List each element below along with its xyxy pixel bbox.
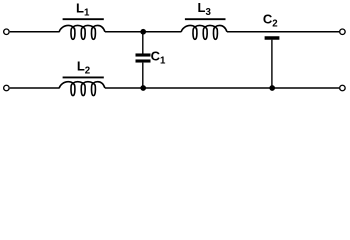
wire: bottom rail, L2 to output terminal through nodes B and C: [105, 87, 339, 89]
svg-text:L2: L2: [77, 59, 90, 77]
svg-text:L1: L1: [76, 0, 90, 18]
inductor L2 bar: [63, 76, 104, 78]
inductor L1 coil: [59, 25, 105, 39]
wire: bottom rail, input terminal to L2: [10, 87, 60, 89]
wire: top rail, input terminal to L1: [10, 31, 60, 33]
capacitor C1 bottom lead: [142, 63, 144, 88]
node B: junction dot at bottom of C1: [140, 85, 146, 91]
svg-text:L3: L3: [198, 0, 212, 18]
terminal: output top-right: [340, 29, 346, 35]
capacitor C1 bottom plate: [136, 59, 151, 62]
capacitor C1 top plate: [136, 53, 151, 56]
terminal: input bottom-left: [4, 85, 9, 91]
capacitor C2 bottom plate: [265, 36, 280, 40]
inductor L2 coil: [59, 82, 105, 96]
node A: junction dot at top of C1: [140, 29, 146, 35]
capacitor C2 lead down to bottom rail: [271, 40, 273, 88]
wire: top rail, L3 to output terminal (forms top plate of C2): [227, 31, 339, 33]
inductor L3 bar: [185, 18, 226, 20]
inductor L3 coil: [181, 25, 227, 39]
wire: top rail, L1 to L3 through node A: [105, 31, 181, 33]
terminal: output bottom-right: [340, 85, 346, 91]
capacitor C1 top lead: [142, 32, 144, 54]
inductor L1 bar: [63, 18, 104, 20]
svg-text:C2: C2: [263, 11, 278, 29]
svg-text:C1: C1: [151, 48, 166, 66]
terminal: input top-left: [4, 29, 9, 35]
node C: junction dot at bottom of C2: [269, 85, 275, 91]
